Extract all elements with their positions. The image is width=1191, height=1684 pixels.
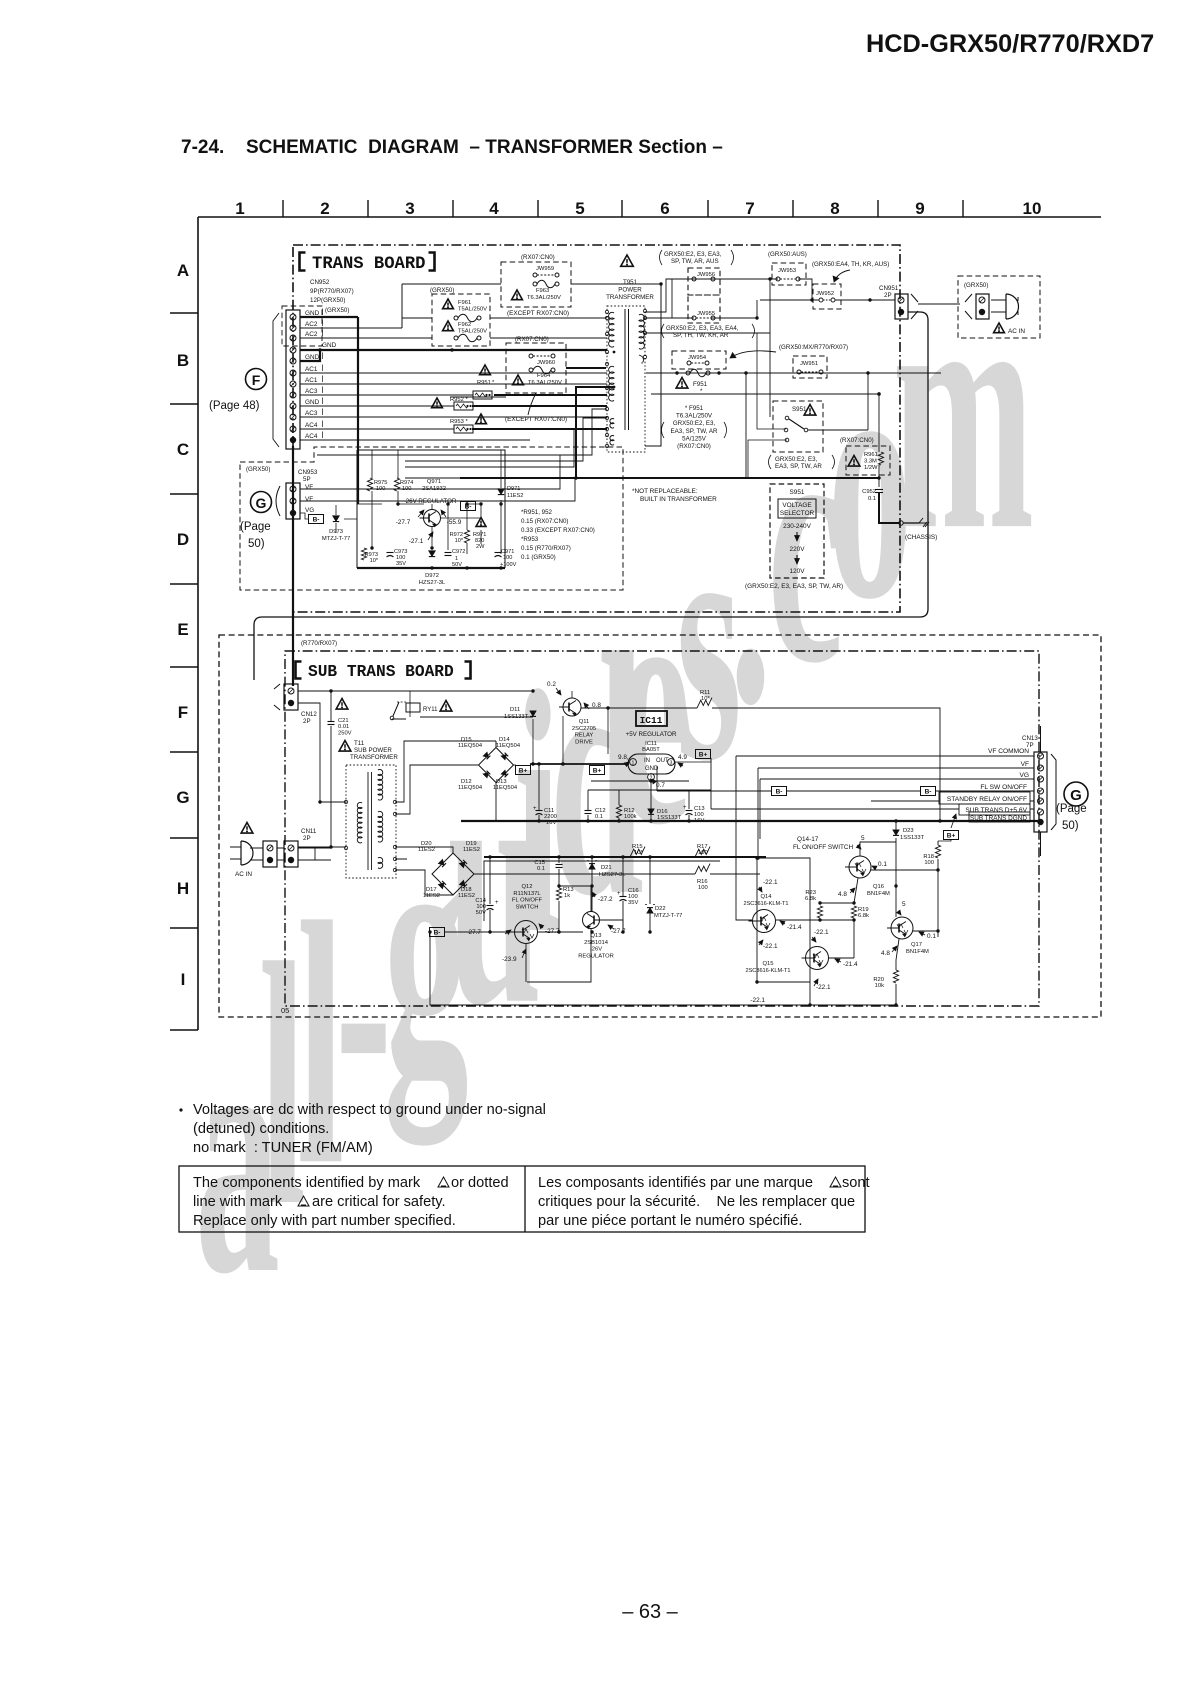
AC IN connector half	[976, 294, 989, 319]
wire VG row	[300, 513, 336, 519]
transformer T11 taps	[344, 800, 347, 803]
transistor Q15	[806, 947, 829, 970]
svg-text:HZS27-3L: HZS27-3L	[599, 872, 626, 878]
svg-text:m: m	[892, 217, 1034, 602]
switch S951 contacts	[785, 416, 789, 420]
svg-text:VF: VF	[305, 484, 313, 491]
svg-text:9.8,: 9.8,	[618, 754, 629, 761]
svg-text:11EQ504: 11EQ504	[493, 785, 518, 791]
TRANS BOARD title	[300, 253, 306, 271]
svg-text:0.1: 0.1	[878, 861, 887, 868]
svg-text:B+: B+	[947, 833, 956, 840]
wire AC2 jog to fuse box	[402, 284, 432, 328]
svg-text:(GRX50): (GRX50)	[964, 282, 988, 289]
zener D973	[333, 516, 339, 521]
svg-text:BN1F4M: BN1F4M	[867, 891, 890, 897]
wire Q14 collector row	[776, 919, 854, 921]
svg-text:5: 5	[575, 199, 584, 218]
transformer T11 dotted box	[346, 765, 396, 878]
capacitor C971	[495, 552, 502, 554]
wire bus standby relay	[871, 800, 1034, 802]
svg-text:F: F	[252, 372, 261, 388]
wire FL bus row thick	[484, 856, 766, 858]
boxed label B plus bridge	[516, 766, 531, 775]
svg-text:B: B	[177, 351, 189, 370]
svg-text:-22.1: -22.1	[814, 929, 829, 936]
svg-text:D22: D22	[655, 906, 666, 912]
svg-text:EA3, SP, TW, AR: EA3, SP, TW, AR	[671, 428, 718, 435]
resistor R951	[480, 365, 491, 375]
svg-text:3: 3	[405, 199, 414, 218]
svg-text:0.15 (R770/RX07): 0.15 (R770/RX07)	[521, 545, 571, 552]
svg-text:*NOT REPLACEABLE:: *NOT REPLACEABLE:	[632, 488, 698, 495]
svg-text:Q11: Q11	[579, 719, 590, 725]
svg-text:6.8k: 6.8k	[858, 913, 869, 919]
svg-text:4.9: 4.9	[678, 754, 687, 761]
wire long row 455	[317, 409, 607, 455]
wire JW954 row	[646, 372, 941, 374]
wire Q12 Q13 wires	[444, 886, 623, 982]
svg-text:-55.9: -55.9	[447, 519, 462, 526]
warning F951	[676, 378, 688, 389]
svg-text:(GRX50): (GRX50)	[246, 466, 270, 473]
svg-text:G: G	[1070, 787, 1082, 804]
svg-text:50): 50)	[248, 538, 265, 550]
svg-text:+5V REGULATOR: +5V REGULATOR	[626, 731, 677, 738]
svg-text:B+: B+	[699, 752, 708, 759]
svg-text:(RX07:CN0): (RX07:CN0)	[521, 254, 555, 261]
grid border top line	[198, 216, 1101, 218]
svg-text:SCHEMATIC DIAGRAM – TRANSFOR: SCHEMATIC DIAGRAM – TRANSFORMER Section …	[246, 137, 723, 158]
svg-text:2SC3616-KLM-T1: 2SC3616-KLM-T1	[745, 968, 790, 974]
svg-text:Les composants identifiés par: Les composants identifiés par une marque	[538, 1175, 813, 1191]
svg-text:Voltages are dc with respe: Voltages are dc with respect to ground u…	[193, 1102, 546, 1118]
svg-text:1SS133T: 1SS133T	[657, 815, 682, 821]
svg-text:100k: 100k	[624, 814, 637, 820]
signal label STANDBY RELAY ON/OFF	[939, 792, 1030, 804]
safety note box	[179, 1166, 865, 1232]
wire bus VF	[758, 768, 1034, 858]
svg-text:Q12: Q12	[522, 884, 533, 890]
svg-text:or dotted: or dotted	[451, 1175, 509, 1191]
svg-text:10k: 10k	[875, 983, 884, 989]
svg-text:AC1: AC1	[305, 366, 318, 373]
wire AC bundle from CN952	[300, 316, 358, 318]
wire row 478 to C952	[878, 478, 880, 487]
svg-text:BUILT IN TRANSFORMER: BUILT IN TRANSFORMER	[640, 496, 717, 503]
wire bus VG	[760, 779, 1034, 839]
svg-text:TRANSFORMER: TRANSFORMER	[606, 294, 654, 301]
svg-text:S951: S951	[790, 489, 805, 496]
svg-text:– 63 –: – 63 –	[622, 1601, 678, 1623]
transformer T951 dotted enclosure	[607, 306, 645, 452]
svg-text:-22.1: -22.1	[763, 879, 778, 886]
svg-text:C21: C21	[338, 718, 349, 724]
svg-text:VOLTAGE: VOLTAGE	[782, 502, 811, 509]
svg-text:SUB TRANS D+5.6V: SUB TRANS D+5.6V	[965, 807, 1027, 814]
connector CN952	[286, 310, 300, 449]
resistor R23	[817, 906, 822, 918]
svg-text:C952: C952	[862, 489, 876, 495]
svg-text:R961: R961	[864, 452, 878, 458]
svg-text:120V: 120V	[790, 568, 806, 575]
fuse F961	[443, 299, 454, 309]
svg-text:CN11: CN11	[301, 828, 317, 835]
relay RY11 coil box	[397, 701, 406, 703]
svg-text:T6.3AL/250V: T6.3AL/250V	[528, 380, 562, 386]
capacitor C14	[487, 905, 494, 907]
svg-text:230-240V: 230-240V	[783, 523, 811, 530]
svg-text:SP, TW, AR, AUS: SP, TW, AR, AUS	[671, 258, 719, 265]
svg-text:+: +	[533, 806, 537, 812]
jumper JW951 box	[793, 356, 827, 378]
boxed label B minus Q971	[461, 502, 476, 511]
svg-text:*: *	[492, 380, 495, 386]
svg-text:6: 6	[660, 199, 669, 218]
wire bus sub trans 5.6	[912, 808, 1034, 810]
svg-text:4: 4	[489, 199, 499, 218]
diode D971	[498, 489, 504, 494]
boxed label B plus DGND area	[944, 831, 959, 840]
svg-text:GRX50:E2, E3,: GRX50:E2, E3,	[775, 456, 818, 463]
svg-text:VF COMMON: VF COMMON	[988, 748, 1029, 755]
wire Q16 emitter	[854, 878, 858, 903]
svg-text:sont: sont	[842, 1175, 870, 1191]
leader JW952 label	[834, 270, 850, 282]
svg-text:(R770/RX07): (R770/RX07)	[301, 640, 337, 647]
svg-text:(GRX50:MX/R770/RX07): (GRX50:MX/R770/RX07)	[779, 344, 848, 351]
jumper JW954 box	[672, 351, 726, 369]
bias loop rectangle Q14 Q15	[757, 858, 810, 982]
wire CN951 to AC IN	[918, 303, 960, 305]
svg-text:11ES2: 11ES2	[463, 847, 480, 853]
svg-text:STANDBY RELAY ON/OFF: STANDBY RELAY ON/OFF	[947, 796, 1027, 803]
svg-text:CN12: CN12	[301, 711, 317, 718]
svg-text:220V: 220V	[790, 546, 806, 553]
svg-text:SUB TRANS DGND: SUB TRANS DGND	[970, 815, 1027, 822]
svg-text:Q14: Q14	[761, 894, 773, 900]
jumper JW956 box	[688, 268, 720, 295]
svg-text:0.1 (GRX50): 0.1 (GRX50)	[521, 554, 556, 561]
transformer T951 secondary windings	[639, 314, 644, 349]
svg-text:D11: D11	[510, 707, 520, 713]
svg-text:C: C	[177, 440, 189, 459]
wire AC to CN12 thick	[292, 446, 294, 686]
svg-text:B-: B-	[313, 517, 320, 524]
svg-text:BN1F4M: BN1F4M	[906, 949, 929, 955]
svg-text:GND: GND	[322, 342, 337, 349]
svg-text:0.1: 0.1	[927, 933, 936, 940]
wire JW960 line	[450, 396, 506, 398]
diode D23	[893, 830, 899, 835]
TRANS BOARD outline	[293, 245, 900, 612]
svg-text:SUB TRANS BOARD: SUB TRANS BOARD	[308, 663, 454, 681]
wire Q17 emitter R20	[896, 939, 899, 1005]
svg-text:2W: 2W	[476, 544, 485, 550]
svg-text:AC3: AC3	[305, 388, 318, 395]
svg-text:-27.7: -27.7	[466, 929, 481, 936]
wire transformer to JW956	[645, 279, 770, 312]
svg-text:5A/125V: 5A/125V	[682, 435, 707, 442]
svg-text:DRIVE: DRIVE	[575, 739, 593, 745]
svg-text:RY11: RY11	[423, 707, 438, 713]
svg-text:3: 3	[670, 761, 673, 767]
svg-text:11ES2: 11ES2	[418, 847, 435, 853]
capacitor C16	[620, 896, 627, 898]
svg-text:(GRX50): (GRX50)	[430, 287, 454, 294]
wire bottom rail Q15	[430, 932, 896, 1005]
svg-text:(RX07:CN0): (RX07:CN0)	[840, 437, 874, 444]
junction dots on bundle	[450, 348, 453, 351]
svg-text:AC4: AC4	[305, 433, 318, 440]
svg-text:F963: F963	[536, 288, 549, 294]
svg-text:-27.7: -27.7	[396, 519, 411, 526]
svg-text:GRX50:E2, E3, EA3,: GRX50:E2, E3, EA3,	[664, 251, 722, 258]
svg-text:Q971: Q971	[427, 479, 441, 485]
svg-text:D972: D972	[425, 573, 439, 579]
IC11 pin 2	[648, 774, 655, 781]
svg-text:0.1: 0.1	[595, 814, 603, 820]
svg-text:no mark : TUNER (FM/AM): no mark : TUNER (FM/AM)	[193, 1140, 373, 1156]
bracket for G reference CN13	[1051, 754, 1056, 830]
svg-text:JW951: JW951	[800, 361, 818, 367]
svg-text:GRX50:E2, E3,: GRX50:E2, E3,	[673, 420, 716, 427]
svg-text:T5AL/250V: T5AL/250V	[458, 328, 487, 334]
svg-text:T6.3AL/250V: T6.3AL/250V	[676, 413, 713, 420]
svg-text:VF: VF	[1021, 761, 1029, 768]
svg-text:5P: 5P	[303, 476, 311, 483]
svg-text:0.01: 0.01	[338, 724, 349, 730]
svg-text:100: 100	[503, 555, 512, 561]
svg-text:+: +	[683, 805, 687, 811]
svg-text:10*: 10*	[455, 538, 464, 544]
leader to JW954	[730, 351, 776, 358]
svg-text:VG: VG	[1019, 772, 1029, 779]
svg-text:9P(R770/RX07): 9P(R770/RX07)	[310, 288, 354, 295]
svg-text:SWITCH: SWITCH	[516, 904, 539, 910]
wire VF rows	[300, 455, 560, 489]
svg-text:100: 100	[698, 885, 708, 891]
svg-text:JW959: JW959	[536, 266, 554, 272]
svg-text:JW952: JW952	[816, 291, 834, 297]
svg-text:100: 100	[402, 486, 411, 492]
wire Q16 top	[860, 842, 896, 856]
svg-text:CN953: CN953	[298, 469, 318, 476]
IC11 IN OUT GND stadium	[628, 754, 675, 774]
wire JW955 row	[645, 300, 757, 318]
svg-text:(EXCEPT RX07:CN0): (EXCEPT RX07:CN0)	[507, 310, 569, 317]
bracket for G reference	[276, 486, 280, 516]
transformer T11 secondary windings	[378, 769, 383, 800]
relay switch contact	[390, 716, 394, 720]
capacitor C15	[556, 864, 563, 866]
capacitor C973	[387, 552, 394, 554]
svg-text:50): 50)	[1062, 820, 1079, 832]
wire Q17 branch	[896, 886, 938, 931]
bracket for F reference	[273, 313, 279, 447]
wire T11 primary connections	[298, 802, 346, 860]
svg-text:HZS27-3L: HZS27-3L	[419, 580, 446, 586]
wire relay row	[392, 691, 533, 720]
svg-text:line with mark: line with mark	[193, 1194, 283, 1210]
transformer T11 primary winding	[357, 802, 362, 842]
svg-text:TRANSFORMER: TRANSFORMER	[350, 754, 398, 761]
svg-text:-21.4: -21.4	[787, 924, 802, 931]
voltage selector S951 box	[770, 484, 824, 578]
fuse box RX07 JW959 F963	[501, 262, 571, 307]
svg-text:MTZJ-T-77: MTZJ-T-77	[654, 913, 682, 919]
transformer T11 label	[339, 741, 351, 752]
svg-text:T6.3AL/250V: T6.3AL/250V	[527, 295, 561, 301]
zener D972	[429, 551, 435, 556]
svg-text:OUT: OUT	[656, 758, 669, 764]
fuse box RX07 JW960 F964	[506, 343, 566, 393]
svg-text:Q14-17: Q14-17	[797, 836, 819, 843]
svg-text:5: 5	[861, 835, 865, 842]
svg-text:2SC3616-KLM-T1: 2SC3616-KLM-T1	[743, 901, 788, 907]
svg-text:-21.4: -21.4	[843, 961, 858, 968]
svg-text:POWER: POWER	[618, 286, 642, 293]
svg-text:(RX07:CN0): (RX07:CN0)	[515, 336, 549, 343]
svg-text:(Page: (Page	[1056, 803, 1087, 815]
wire FL SW full	[657, 790, 1034, 792]
svg-text:11ES2: 11ES2	[458, 893, 475, 899]
svg-text:C972: C972	[452, 549, 465, 555]
svg-text:100: 100	[924, 860, 934, 866]
svg-text:(RX07:CN0): (RX07:CN0)	[677, 443, 711, 450]
transformer T951 tap pins	[605, 310, 608, 313]
chassis ground symbol	[919, 518, 929, 527]
wire AC IN to CN11	[250, 848, 284, 860]
transistor Q13 regulator	[583, 912, 600, 929]
signal label SUB TRANS D+5.6V	[959, 804, 1030, 815]
wire B+ rail	[530, 763, 629, 765]
svg-text:B+: B+	[519, 768, 528, 775]
svg-text:7-24.: 7-24.	[181, 137, 224, 158]
svg-text:IN: IN	[644, 758, 650, 764]
grid border left line	[197, 217, 199, 1030]
svg-text:50V: 50V	[452, 562, 462, 568]
svg-text:AC IN: AC IN	[235, 871, 252, 878]
wire GND vertical thick	[357, 317, 359, 504]
svg-text:G: G	[256, 495, 267, 511]
svg-text:11ES2: 11ES2	[423, 893, 440, 899]
boxed label B plus mid	[590, 766, 605, 775]
connector AC plug SUB	[241, 841, 253, 865]
wire S951 feed vertical	[645, 332, 770, 334]
svg-text:0.1: 0.1	[537, 866, 545, 872]
capacitor C11	[536, 810, 543, 812]
svg-text:1k: 1k	[564, 893, 570, 899]
note voltages are dc	[179, 1108, 182, 1111]
wire IC11 out	[675, 754, 711, 762]
svg-text:2SC2705: 2SC2705	[572, 726, 596, 732]
svg-text:par une piéce portant le numér: par une piéce portant le numéro spécifié…	[538, 1213, 802, 1229]
resistor R12	[616, 805, 621, 818]
GRX50 pin group dashed box	[282, 306, 322, 346]
wire row 394	[645, 357, 879, 394]
wire R19 to Q15	[829, 920, 854, 958]
svg-text:100: 100	[376, 486, 385, 492]
svg-text:JW960: JW960	[537, 360, 555, 366]
svg-text:0.33 (EXCEPT RX07:CN0): 0.33 (EXCEPT RX07:CN0)	[521, 527, 595, 534]
fuse F963	[533, 282, 537, 286]
svg-text:*R953: *R953	[521, 536, 539, 543]
wire JW953 row	[645, 279, 812, 318]
svg-text:0.2: 0.2	[547, 681, 556, 688]
svg-text:REGULATOR: REGULATOR	[578, 953, 614, 959]
svg-text:1/2W: 1/2W	[864, 465, 878, 471]
svg-text:1: 1	[632, 761, 635, 767]
resistor R20	[893, 970, 898, 983]
fuse F964	[529, 368, 533, 372]
svg-text:(GRX50:AUS): (GRX50:AUS)	[768, 251, 807, 258]
svg-text:D23: D23	[903, 828, 914, 834]
svg-text:CN951: CN951	[879, 285, 899, 292]
wire regulator internals	[372, 450, 501, 554]
svg-text:10*: 10*	[370, 558, 379, 564]
diode D16	[648, 809, 654, 814]
svg-text:50V: 50V	[476, 910, 486, 916]
AC IN plug symbol	[1006, 294, 1018, 319]
regulator box	[357, 450, 505, 568]
svg-text:1SS133T: 1SS133T	[900, 835, 925, 841]
svg-text:MTZJ-T-77: MTZJ-T-77	[322, 536, 350, 542]
svg-text:(detuned) conditions.: (detuned) conditions.	[193, 1121, 329, 1137]
svg-text:GRX50:E2, E3, EA3, EA4,: GRX50:E2, E3, EA3, EA4,	[666, 325, 739, 332]
svg-text:D971: D971	[507, 486, 520, 492]
capacitor C952	[875, 489, 883, 491]
boxed label B minus bus2	[921, 787, 936, 796]
svg-text:11EQ504: 11EQ504	[458, 743, 483, 749]
svg-text:5: 5	[902, 901, 906, 908]
svg-text:+100V: +100V	[500, 562, 517, 568]
svg-text:FL ON/OFF: FL ON/OFF	[512, 898, 543, 904]
svg-text:1SS133T: 1SS133T	[504, 714, 529, 720]
svg-text:EA3, SP, TW, AR: EA3, SP, TW, AR	[775, 463, 822, 470]
wire T951 thick tap to row478	[576, 387, 613, 478]
fuse F962	[443, 321, 454, 331]
svg-text:-22.1: -22.1	[750, 997, 765, 1004]
signal label SUB TRANS DGND	[969, 812, 1030, 822]
svg-text:AC IN: AC IN	[1008, 328, 1025, 335]
svg-text:AC3: AC3	[305, 410, 318, 417]
svg-text:3.3M: 3.3M	[864, 458, 877, 464]
resistor R19	[851, 906, 856, 918]
svg-text:B+: B+	[593, 768, 602, 775]
switch S951 box	[773, 401, 823, 452]
svg-text:VF: VF	[305, 496, 313, 503]
svg-text:2SA1932: 2SA1932	[422, 486, 446, 492]
grid column ticks	[282, 200, 284, 217]
svg-text:+: +	[617, 891, 621, 897]
circled G page 50 CN13	[1064, 782, 1088, 806]
svg-text:(Page: (Page	[240, 521, 271, 533]
svg-text:critiques pour la sécurité.: critiques pour la sécurité. Ne les rempl…	[538, 1194, 855, 1210]
svg-text:0.1: 0.1	[868, 496, 876, 502]
AC IN box GRX50	[958, 276, 1040, 338]
svg-text:FL ON/OFF SWITCH: FL ON/OFF SWITCH	[793, 844, 853, 851]
wire T11 secondary to bridge	[395, 741, 496, 814]
transformer T951 core	[625, 309, 629, 430]
svg-text:11EQ504: 11EQ504	[496, 743, 521, 749]
jumper JW952 box	[813, 284, 841, 309]
wire CN11 to T11	[298, 848, 331, 860]
svg-text:2P: 2P	[303, 835, 311, 842]
svg-text:D973: D973	[329, 529, 343, 535]
svg-text:-22.1: -22.1	[816, 984, 831, 991]
svg-text:R11N137L: R11N137L	[513, 891, 541, 897]
